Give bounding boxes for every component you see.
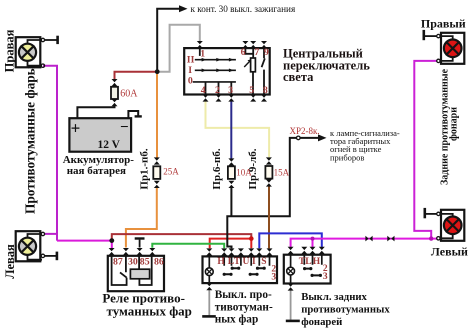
svg-text:ХР2-8к.: ХР2-8к. <box>290 126 320 136</box>
wire: gray ground lead below fog switch <box>208 290 210 316</box>
relay K1 box <box>108 256 164 291</box>
svg-text:S: S <box>261 257 266 267</box>
relay terminal connectors <box>109 248 156 255</box>
rear fog switch S2 box <box>284 255 331 284</box>
svg-text:приборов: приборов <box>330 153 364 163</box>
ground at front left lamp <box>45 252 57 261</box>
svg-text:Выкл. задних: Выкл. задних <box>301 291 367 303</box>
svg-text:9: 9 <box>264 47 269 58</box>
svg-text:25А: 25А <box>163 166 179 176</box>
text: Выкл. противотуманных фар <box>215 289 273 325</box>
text: Аккумуляторная батарея <box>63 154 135 177</box>
text: central switch pin labels <box>187 47 269 96</box>
text: fog switch pin letters <box>217 257 276 282</box>
wire: black 10A fuse output with XP2-8k branch <box>227 138 318 249</box>
svg-text:I: I <box>252 257 256 267</box>
junction node rear switch t3 <box>311 237 315 241</box>
wire: magenta rear fog circuit <box>291 239 437 248</box>
svg-text:L: L <box>305 257 311 267</box>
wire: brown 15A fuse output to fog switch terminal 7 <box>268 187 270 249</box>
battery 12V <box>69 118 131 152</box>
svg-text:II: II <box>187 55 195 66</box>
wire: magenta right side to rear lamps <box>414 61 437 239</box>
rear switch terminal connectors <box>288 247 325 291</box>
svg-text:фонари: фонари <box>448 107 459 141</box>
connector ring on XP2 line <box>297 136 301 140</box>
wire: blue fog switch 6 to rear switch 4 <box>259 233 322 248</box>
svg-text:I: I <box>188 65 192 76</box>
fuse 10A (Пр.6-пб.) <box>228 158 235 188</box>
svg-text:2: 2 <box>215 85 220 96</box>
svg-text:15А: 15А <box>274 167 290 177</box>
svg-text:ная батарея: ная батарея <box>67 165 126 177</box>
ground at front right lamp <box>45 36 58 44</box>
svg-text:4: 4 <box>201 85 206 96</box>
arrow to ignition <box>179 5 188 12</box>
svg-text:+: + <box>71 119 81 138</box>
wire: supply dark red from 60A fuse top to junction <box>115 72 158 81</box>
svg-text:T: T <box>234 257 241 267</box>
lamp front left (Левая) box <box>16 231 45 261</box>
svg-text:8: 8 <box>263 85 268 96</box>
ground bar at battery minus <box>135 115 142 117</box>
arrow XP2-8k <box>318 134 327 141</box>
ground at rear left lamp <box>425 208 437 218</box>
wire: gray feed to central switch terminal 1 <box>157 25 200 72</box>
wire: dark red from relay junction to switch <box>112 234 252 241</box>
lamp front right (Правая) box <box>16 37 45 67</box>
text: relay pin labels <box>113 257 164 268</box>
fog lamp switch S1 box <box>203 256 278 283</box>
wire: bright red to fog switch terminals 1 and 5 <box>210 239 252 249</box>
ground bar below fog switch <box>202 315 216 318</box>
svg-text:6: 6 <box>241 47 246 58</box>
ground bar below rear switch <box>286 320 300 323</box>
svg-text:противотуманных: противотуманных <box>301 304 390 316</box>
wire: gray ground lead below rear switch <box>290 290 292 320</box>
lamp rear left (Левый) box <box>437 210 465 241</box>
fuse 15A (Пр.9-лб.) <box>265 157 272 186</box>
junction node at supply <box>155 69 160 74</box>
wire: navy central switch 3 to 10A fuse <box>230 101 232 160</box>
wire: orange from junction through 25A fuse to relay 30 <box>126 74 157 248</box>
svg-text:1: 1 <box>200 48 205 59</box>
text: Центральный переключатель света <box>283 47 370 85</box>
text: к лампе-сигнализатора <box>330 128 400 163</box>
svg-text:87: 87 <box>113 257 123 268</box>
svg-text:U: U <box>243 257 250 267</box>
svg-text:12 V: 12 V <box>97 139 120 151</box>
svg-text:3: 3 <box>323 272 328 282</box>
junction node at relay 87 <box>109 238 114 243</box>
ground above relay 85 <box>135 239 145 248</box>
svg-text:3: 3 <box>271 272 276 282</box>
connector pair marks on rear magenta wire <box>365 236 372 242</box>
wire: magenta front fog lamps vertical <box>43 66 57 241</box>
svg-text:света: света <box>283 70 314 84</box>
wire: pale yellow central switch 4 to 15A fuse <box>206 101 270 158</box>
fuse 25A (Пр1.-пб.) <box>153 157 160 188</box>
fog switch terminal connectors <box>206 248 272 290</box>
svg-text:к конт. 30 выкл. зажигания: к конт. 30 выкл. зажигания <box>191 4 296 14</box>
svg-text:ных фар: ных фар <box>215 313 259 325</box>
svg-text:Пр1.-пб.: Пр1.-пб. <box>139 148 151 189</box>
svg-text:Пр.6-пб.: Пр.6-пб. <box>211 148 223 189</box>
svg-text:H: H <box>217 257 225 267</box>
wire: magenta front horizontal to relay junction <box>57 241 112 248</box>
svg-text:5: 5 <box>249 85 254 96</box>
text: rear switch pin letters <box>299 257 328 282</box>
text: Задние противотуманные фонари (rotated two lines) <box>439 68 459 185</box>
lamp rear right (Правый) box <box>437 33 465 64</box>
svg-text:Левый: Левый <box>431 244 468 258</box>
ground at rear right lamp <box>424 30 437 40</box>
svg-text:85: 85 <box>140 257 150 268</box>
svg-text:тивотуман-: тивотуман- <box>215 302 273 314</box>
junction node rear magenta <box>429 236 433 240</box>
wire: black battery plus to 60A fuse <box>77 105 114 118</box>
svg-text:туманных фар: туманных фар <box>107 303 192 318</box>
svg-text:7: 7 <box>254 47 259 58</box>
junction node red <box>249 236 254 241</box>
svg-text:H: H <box>313 257 321 267</box>
text: Реле противотуманных фар <box>102 290 192 318</box>
fuse 60A <box>111 79 118 106</box>
svg-text:30: 30 <box>128 257 138 268</box>
svg-text:3: 3 <box>228 85 233 96</box>
svg-text:Противотуманные фары: Противотуманные фары <box>23 64 38 214</box>
svg-text:Левая: Левая <box>3 244 17 279</box>
wire: green relay 86 to fog switch terminal 2 <box>152 244 224 249</box>
wire: black battery minus to ground <box>128 111 138 118</box>
svg-text:0: 0 <box>188 76 193 87</box>
svg-text:86: 86 <box>154 257 164 268</box>
svg-text:10А: 10А <box>236 168 252 178</box>
svg-text:Правая: Правая <box>3 29 17 72</box>
svg-text:Правый: Правый <box>421 17 466 31</box>
svg-text:фонарей: фонарей <box>301 316 342 328</box>
svg-text:Выкл. про-: Выкл. про- <box>215 289 272 301</box>
svg-text:60А: 60А <box>120 88 138 99</box>
svg-text:−: − <box>120 120 129 136</box>
central switch terminal connectors <box>197 41 267 102</box>
text: Выкл. задних противотуманных фонарей <box>301 291 390 328</box>
central light switch U1 box <box>184 48 270 94</box>
wire: black to ignition switch contact 30 <box>157 9 179 72</box>
